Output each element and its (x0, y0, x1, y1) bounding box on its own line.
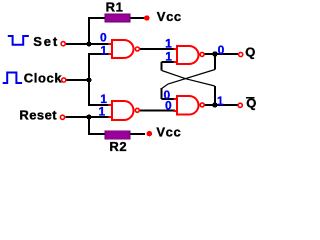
svg-text:R1: R1 (106, 0, 124, 14)
svg-text:Vcc: Vcc (156, 125, 181, 140)
svg-text:0: 0 (165, 98, 172, 112)
svg-text:Q: Q (245, 45, 256, 60)
svg-text:1: 1 (165, 49, 172, 63)
svg-text:Set: Set (33, 34, 59, 49)
svg-text:R2: R2 (109, 139, 127, 153)
svg-text:0: 0 (100, 30, 107, 44)
svg-text:1: 1 (217, 94, 224, 108)
svg-text:0: 0 (218, 43, 225, 57)
svg-text:Vcc: Vcc (157, 9, 182, 24)
svg-text:Reset: Reset (19, 107, 57, 122)
svg-text:1: 1 (99, 105, 106, 119)
svg-text:Clock: Clock (24, 70, 63, 85)
svg-text:1: 1 (100, 43, 107, 57)
